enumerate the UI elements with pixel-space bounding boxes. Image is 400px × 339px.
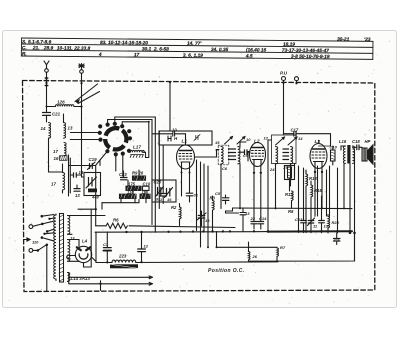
resistor R10 — [330, 145, 338, 166]
coil L16 — [53, 143, 67, 162]
cathode cap C25 — [334, 233, 340, 245]
rotary band switch SW1 — [98, 122, 132, 157]
resistor R7 — [277, 245, 286, 261]
svg-text:21.: 21. — [32, 45, 40, 51]
svg-text:4.5: 4.5 — [245, 53, 253, 59]
misc small labels — [215, 136, 303, 173]
wire switch down-left — [78, 166, 97, 227]
trimmer box C4 — [84, 173, 101, 200]
svg-text:(16.40 16: (16.40 16 — [246, 47, 267, 53]
capacitor C15 — [250, 216, 258, 229]
wire risers right cluster — [299, 166, 338, 233]
coil L14 — [41, 122, 51, 172]
resistor R26 — [249, 242, 258, 261]
T2 lead wires — [268, 140, 295, 233]
trimmer C8 — [197, 211, 210, 226]
svg-text:L16: L16 — [339, 139, 347, 144]
svg-text:13: 13 — [68, 126, 73, 131]
V1 cathode legs — [181, 169, 191, 196]
trimmer C19 — [88, 157, 98, 170]
svg-text:12: 12 — [144, 244, 149, 249]
line y202 — [102, 200, 139, 210]
transformer lead wires — [341, 146, 355, 261]
svg-text:223: 223 — [118, 254, 127, 259]
resistor R12 — [285, 191, 293, 208]
svg-text:'23: '23 — [364, 37, 371, 43]
switch top wires — [108, 117, 156, 126]
svg-text:C21: C21 — [52, 112, 61, 117]
svg-text:S.: S. — [22, 39, 27, 45]
padder box C20 — [152, 180, 176, 203]
transformer core — [60, 214, 64, 283]
svg-text:C.: C. — [22, 45, 27, 51]
svg-text:HP: HP — [365, 139, 371, 144]
svg-text:10: 10 — [246, 137, 251, 142]
svg-text:Position O.C.: Position O.C. — [208, 268, 245, 274]
svg-text:13: 13 — [75, 193, 80, 198]
rectifier tube V4 — [67, 209, 96, 267]
svg-text:34. 0.35: 34. 0.35 — [211, 47, 229, 53]
svg-text:R18: R18 — [309, 176, 317, 181]
capacitor C12 — [138, 232, 149, 262]
capacitor C17 — [284, 128, 331, 147]
svg-text:16: 16 — [167, 197, 172, 202]
svg-text:C9: C9 — [243, 153, 249, 158]
heater secondary — [68, 216, 106, 241]
V2 legs — [248, 152, 262, 217]
svg-text:3. 6. 1.19: 3. 6. 1.19 — [183, 53, 203, 59]
oscillator box — [159, 131, 212, 145]
capacitor C18b — [353, 145, 363, 150]
position text — [208, 268, 245, 274]
coil L26 — [46, 100, 83, 108]
resistor R6 — [106, 223, 127, 228]
svg-text:14: 14 — [41, 126, 46, 131]
svg-text:C17: C17 — [291, 128, 299, 133]
capacitor C11 — [240, 150, 250, 155]
HT secondary — [68, 239, 88, 262]
grid capacitor C10 — [152, 128, 186, 146]
wire plate V1 to T1 — [186, 142, 220, 158]
resistor box R110 — [120, 190, 137, 199]
capacitor C24 — [186, 193, 198, 203]
svg-text:126: 126 — [57, 100, 65, 105]
heater run arrows — [69, 273, 153, 286]
svg-text:12: 12 — [264, 136, 269, 141]
ground bus — [95, 230, 352, 233]
switch arrow — [75, 84, 100, 104]
svg-text:R8: R8 — [288, 209, 294, 214]
resistor R18 — [306, 170, 317, 190]
resistor box R19 — [283, 165, 295, 192]
svg-text:3-8 50-10-70-9-19: 3-8 50-10-70-9-19 — [291, 54, 330, 60]
coil L27 — [130, 145, 146, 158]
svg-text:2. 6-58: 2. 6-58 — [153, 46, 169, 52]
capacitor C14 — [258, 216, 267, 229]
tube V1 — [177, 139, 195, 170]
svg-text:30-21: 30-21 — [337, 37, 350, 43]
wire riser column — [146, 117, 164, 232]
filter choke L23 — [96, 254, 278, 269]
svg-text:24: 24 — [269, 167, 275, 172]
resistor R15 — [311, 181, 322, 202]
svg-text:R6: R6 — [113, 218, 119, 223]
svg-text:17: 17 — [134, 52, 140, 58]
svg-text:73-17-30-13-46-45-47: 73-17-30-13-46-45-47 — [282, 48, 329, 54]
svg-text:C13: C13 — [295, 217, 303, 222]
capacitor C19b — [319, 216, 329, 233]
trimmer C16 — [308, 216, 318, 233]
tube lineup table — [21, 34, 373, 61]
power transformer primary — [54, 214, 56, 281]
node bus left pair — [69, 155, 71, 196]
svg-text:C18: C18 — [352, 139, 360, 144]
ground terminal A2 — [79, 64, 85, 74]
svg-text:10-13: 10-13 — [57, 46, 70, 52]
resistor R2 — [171, 204, 181, 226]
svg-text:P.U: P.U — [280, 71, 288, 76]
switch bottom wires — [100, 151, 131, 176]
svg-text:18: 18 — [205, 218, 210, 223]
capacitor C21 — [43, 112, 61, 123]
svg-text:16: 16 — [54, 156, 59, 161]
return line — [249, 232, 356, 263]
svg-text:17: 17 — [51, 182, 56, 187]
svg-text:C6: C6 — [222, 166, 228, 171]
svg-text:110: 110 — [32, 240, 39, 245]
capacitor C1 — [103, 232, 111, 262]
svg-text:15: 15 — [215, 140, 220, 145]
svg-text:R2: R2 — [171, 205, 177, 210]
svg-text:C1: C1 — [103, 242, 109, 247]
svg-text:28.9: 28.9 — [43, 45, 54, 51]
svg-text:L1: L1 — [182, 139, 188, 145]
filament winding — [68, 273, 70, 282]
svg-text:C19: C19 — [89, 157, 98, 162]
capacitor C23 — [119, 172, 127, 180]
coil L17 — [49, 164, 65, 193]
svg-text:5.1-6.7-8.9: 5.1-6.7-8.9 — [28, 39, 52, 45]
chassis dashed border — [23, 81, 375, 292]
svg-text:R7: R7 — [280, 245, 286, 250]
svg-text:14. 77': 14. 77' — [187, 41, 202, 47]
main HT bus — [96, 218, 235, 229]
wire A2 down — [80, 73, 84, 177]
svg-text:C14: C14 — [259, 216, 267, 221]
input terminal wire — [282, 81, 284, 134]
svg-text:4: 4 — [98, 52, 102, 58]
output transformer — [343, 145, 354, 164]
riser wires V1 right — [197, 160, 209, 247]
wire antenna A1 down — [45, 72, 48, 112]
phono terminals — [280, 71, 299, 85]
tube V3 — [310, 139, 331, 169]
svg-text:18.19: 18.19 — [283, 42, 295, 48]
svg-text:R.: R. — [22, 51, 27, 57]
svg-text:C10: C10 — [330, 145, 338, 150]
antenna A1 — [44, 61, 49, 72]
svg-text:R9 26: R9 26 — [132, 171, 144, 176]
chassis tap — [99, 281, 101, 291]
B+ bus — [226, 207, 353, 214]
capacitor C13 — [295, 216, 306, 233]
coil L13 — [64, 114, 73, 138]
rectifier HT line — [96, 232, 143, 264]
wire coils to switch — [69, 133, 101, 166]
mains selector contacts — [24, 215, 54, 292]
svg-text:R23: R23 — [332, 220, 340, 225]
loudspeaker HP — [362, 144, 374, 166]
tube V2 — [250, 139, 266, 167]
svg-text:1. 22.33.8: 1. 22.33.8 — [69, 46, 91, 52]
output transformer labels — [339, 139, 371, 144]
screen line — [207, 232, 277, 249]
V3 legs — [314, 168, 323, 216]
capacitor C13 — [74, 185, 80, 198]
resistor box R25 — [132, 171, 146, 181]
svg-text:L14 3A13: L14 3A13 — [71, 276, 91, 281]
svg-text:17: 17 — [53, 149, 58, 154]
resistor box R116 — [140, 190, 150, 199]
svg-text:83. 10-12-14-16-18-20: 83. 10-12-14-16-18-20 — [100, 40, 148, 46]
wire step — [226, 208, 251, 231]
svg-text:R15: R15 — [314, 188, 322, 193]
resistor R23 — [328, 215, 340, 234]
IF transformer T2 — [272, 135, 298, 164]
svg-text:26: 26 — [252, 254, 258, 259]
svg-text:C5: C5 — [215, 191, 221, 196]
capacitor C5 — [215, 191, 229, 204]
cluster leads — [121, 170, 146, 203]
svg-text:30.1: 30.1 — [142, 46, 152, 52]
svg-text:L17: L17 — [133, 145, 141, 150]
resistor box R75 — [126, 182, 141, 191]
wire top node to osc box — [169, 81, 171, 131]
svg-text:14: 14 — [298, 136, 303, 141]
svg-text:L4: L4 — [82, 239, 88, 244]
resistor R3 — [210, 196, 216, 232]
svg-text:22: 22 — [250, 216, 256, 221]
svg-text:18: 18 — [79, 170, 84, 175]
IF transformer T1 — [218, 136, 246, 165]
capacitor C18 — [70, 170, 84, 177]
capacitor C22 — [158, 194, 166, 204]
capacitor C10b — [143, 182, 151, 191]
T1 lead wires — [221, 142, 246, 209]
